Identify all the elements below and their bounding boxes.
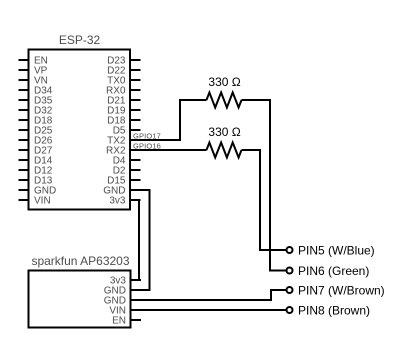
node PIN7 terminal [287,287,293,293]
ESP-32 right pin D4 [113,156,141,167]
label PIN8 (Brown) [298,303,370,317]
ESP-32 right pin 3v3 [109,196,140,207]
svg-text:EN: EN [112,316,126,327]
svg-text:GPIO16: GPIO16 [133,142,161,151]
ESP-32 left pin D27 [19,146,53,157]
ESP-32 left pin D18 [19,116,53,127]
svg-text:sparkfun AP63203: sparkfun AP63203 [31,254,129,268]
AP63203 pin GND [104,286,141,297]
svg-text:GPIO17: GPIO17 [133,131,161,140]
node PIN6 terminal [287,268,293,274]
ESP-32 left pin EN [19,56,48,67]
ESP-32 right pin RX0 [106,86,140,97]
sparkfun AP63203 title label [31,254,129,268]
ESP-32 left pin D32 [19,106,53,117]
ESP-32 right pin TX2 [107,136,140,147]
node PIN8 terminal [287,307,293,313]
svg-text:PIN6 (Green): PIN6 (Green) [298,264,369,278]
ESP-32 left pin VN [19,76,48,87]
net label GPIO16 [133,142,161,151]
label PIN6 (Green) [298,264,369,278]
AP63203 pin 3v3 [110,276,141,287]
ESP-32 left pin D13 [19,176,53,187]
AP63203 pin VIN [109,306,141,317]
ESP-32 left pin GND [19,186,57,197]
node PIN5 terminal [287,247,293,253]
ESP-32 right pin TX0 [107,76,140,87]
ESP-32 right pin D21 [107,96,140,107]
ESP-32 left pin VIN [19,196,51,207]
IC U1 ESP-32 outline [29,50,131,210]
ESP-32 right pin D23 [107,56,140,67]
ESP-32 left pin D26 [19,136,53,147]
svg-text:VIN: VIN [34,196,51,207]
wire ESP-32 3v3 to AP63203 3v3 [131,200,140,280]
svg-text:ESP-32: ESP-32 [59,33,101,47]
wire ESP-32 GND to AP63203 GND [131,190,150,290]
ESP-32 right pin D5 [113,126,141,137]
net label GPIO17 [133,131,161,140]
svg-text:330 Ω: 330 Ω [208,75,240,89]
ESP-32 left pin D25 [19,126,53,137]
svg-text:PIN8 (Brown): PIN8 (Brown) [298,303,370,317]
svg-text:PIN7 (W/Brown): PIN7 (W/Brown) [298,283,385,297]
label R2 value 330 Ω [208,125,240,139]
ESP-32 title label [59,33,101,47]
wire RX2/GPIO16 to resistor R2 [130,149,207,151]
ESP-32 left pin VP [19,66,48,77]
ESP-32 right pin D22 [107,66,140,77]
label R1 value 330 Ω [208,75,240,89]
wire TX2/GPIO17 to resistor R1 [130,100,207,140]
ESP-32 right pin D15 [107,176,140,187]
ESP-32 right pin GND [103,186,140,197]
ESP-32 right pin D18 [107,116,140,127]
ESP-32 right pin RX2 [106,146,140,157]
svg-text:330 Ω: 330 Ω [208,125,240,139]
label PIN5 (W/Blue) [298,243,375,257]
ESP-32 left pin D12 [19,166,53,177]
resistor R2 330 ohm zigzag [207,143,242,158]
ESP-32 left pin D35 [19,96,53,107]
wire AP63203 GND to PIN7 terminal [131,290,287,300]
wire resistor R2 to PIN5 terminal [242,150,287,250]
ESP-32 right pin D19 [107,106,140,117]
resistor R1 330 ohm zigzag [207,93,242,108]
AP63203 pin GND [104,296,141,307]
AP63203 pin EN [112,316,141,327]
label PIN7 (W/Brown) [298,283,385,297]
ESP-32 left pin D34 [19,86,53,97]
svg-text:PIN5 (W/Blue): PIN5 (W/Blue) [298,243,375,257]
IC U2 sparkfun AP63203 outline [29,271,131,328]
wire AP63203 VIN to PIN8 terminal [131,309,287,311]
ESP-32 left pin D14 [19,156,53,167]
wire resistor R1 to PIN6 terminal [242,100,287,271]
svg-text:3v3: 3v3 [109,196,126,207]
ESP-32 right pin D2 [113,166,141,177]
